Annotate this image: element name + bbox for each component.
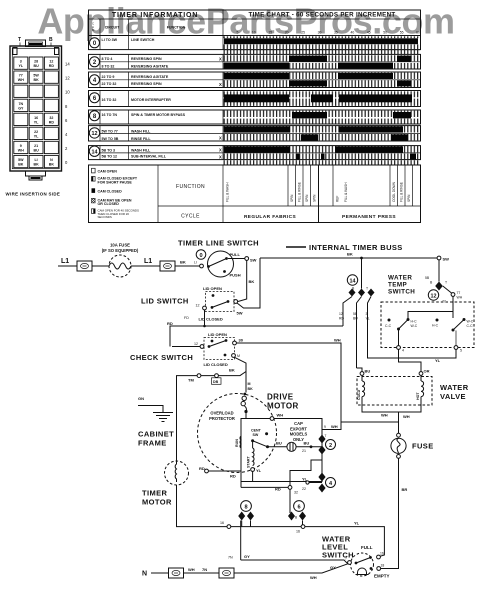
svg-text:60: 60 bbox=[416, 31, 420, 35]
svg-text:SWITCH: SWITCH bbox=[388, 289, 415, 296]
cam group 14 row bbox=[89, 146, 421, 160]
hot solenoid bbox=[420, 375, 422, 381]
svg-text:BK: BK bbox=[248, 387, 254, 391]
air dome bell bbox=[358, 568, 367, 575]
svg-text:BU: BU bbox=[276, 441, 282, 446]
svg-text:5B: 5B bbox=[353, 312, 358, 316]
SW terminal bbox=[245, 257, 249, 261]
svg-text:T: T bbox=[445, 281, 447, 285]
svg-text:FUNCTION: FUNCTION bbox=[167, 26, 186, 30]
svg-text:W-C: W-C bbox=[467, 320, 474, 324]
cam group 12 row bbox=[89, 126, 421, 141]
cam 14 circle bbox=[347, 275, 357, 285]
svg-text:L1: L1 bbox=[144, 258, 152, 265]
svg-text:FULL: FULL bbox=[361, 545, 373, 550]
legend / function / cycle block bbox=[89, 165, 421, 223]
svg-text:50: 50 bbox=[383, 31, 387, 35]
svg-text:M: M bbox=[248, 382, 251, 386]
svg-text:BK: BK bbox=[33, 163, 39, 167]
right temp contact set bbox=[436, 319, 439, 322]
YL wire to water level full bbox=[305, 527, 385, 557]
svg-text:C-C: C-C bbox=[467, 324, 474, 328]
svg-text:BK: BK bbox=[33, 78, 39, 82]
cam group 4 row bbox=[89, 72, 421, 88]
svg-text:T: T bbox=[366, 287, 368, 291]
water temp feed line bbox=[408, 312, 453, 319]
svg-text:FILL & WASH: FILL & WASH bbox=[344, 182, 348, 202]
svg-text:18: 18 bbox=[381, 564, 385, 568]
water level switch body bbox=[351, 553, 374, 576]
svg-text:RUN: RUN bbox=[235, 439, 239, 447]
svg-text:LID OPEN: LID OPEN bbox=[203, 286, 222, 291]
connector box CO (L1) bbox=[77, 261, 92, 271]
wire timer motor down to 16 run bbox=[177, 485, 304, 527]
svg-text:12: 12 bbox=[431, 293, 437, 299]
svg-text:LI TO 3W: LI TO 3W bbox=[102, 38, 118, 42]
svg-text:YL: YL bbox=[34, 134, 39, 138]
cam 8 contacts bbox=[238, 512, 245, 521]
svg-text:FUNCTION: FUNCTION bbox=[176, 184, 205, 190]
chart tick band in group gaps bbox=[224, 50, 421, 54]
svg-text:TIMER LINE SWITCH: TIMER LINE SWITCH bbox=[178, 239, 259, 248]
wire motor box bottom to node bbox=[240, 482, 242, 488]
svg-text:12: 12 bbox=[92, 131, 98, 137]
svg-text:28: 28 bbox=[34, 60, 38, 64]
svg-text:WATER: WATER bbox=[440, 383, 469, 392]
wire BK to timer line switch bbox=[175, 265, 200, 267]
svg-text:VALVE: VALVE bbox=[440, 392, 466, 401]
svg-text:CABINET: CABINET bbox=[138, 430, 174, 439]
svg-text:TM: TM bbox=[188, 378, 194, 383]
svg-text:7: 7 bbox=[345, 557, 347, 561]
wire 5B BU down to valve bbox=[357, 368, 363, 372]
svg-text:WASH FILL: WASH FILL bbox=[131, 148, 151, 152]
svg-text:PROTECTOR: PROTECTOR bbox=[209, 416, 235, 421]
lid switch bbox=[206, 292, 235, 312]
cold solenoid bbox=[361, 375, 363, 381]
svg-text:MOTOR INTERRUPTER: MOTOR INTERRUPTER bbox=[131, 98, 171, 102]
svg-text:X: X bbox=[219, 148, 222, 153]
svg-text:8 TO 4: 8 TO 4 bbox=[102, 57, 113, 61]
svg-text:LID OPEN: LID OPEN bbox=[208, 332, 227, 337]
svg-text:X: X bbox=[219, 57, 222, 62]
svg-text:32: 32 bbox=[49, 116, 53, 120]
svg-text:SW: SW bbox=[250, 258, 257, 263]
svg-text:5: 5 bbox=[460, 349, 462, 353]
svg-text:REF: REF bbox=[336, 196, 340, 202]
RD motor lead bbox=[209, 470, 242, 472]
svg-text:H-C: H-C bbox=[411, 320, 418, 324]
svg-text:FUSE: FUSE bbox=[412, 442, 434, 451]
svg-text:WASH FILL: WASH FILL bbox=[131, 130, 151, 134]
cam group 2 row bbox=[89, 54, 421, 69]
svg-text:X: X bbox=[219, 136, 222, 141]
svg-text:RD: RD bbox=[339, 317, 344, 321]
svg-text:21: 21 bbox=[34, 144, 38, 148]
svg-text:7N: 7N bbox=[228, 556, 233, 560]
cam 14 terminal drops bbox=[343, 297, 352, 327]
svg-text:BR: BR bbox=[402, 487, 408, 492]
time scale numbers bbox=[236, 31, 420, 35]
svg-text:WH: WH bbox=[381, 413, 388, 418]
svg-text:REVERSING AGITATE: REVERSING AGITATE bbox=[131, 75, 169, 79]
svg-text:PULL: PULL bbox=[230, 252, 241, 257]
svg-text:WATER: WATER bbox=[388, 275, 412, 282]
svg-text:LINE SWITCH: LINE SWITCH bbox=[131, 38, 155, 42]
svg-text:9: 9 bbox=[324, 425, 326, 429]
terminal 4 bbox=[397, 346, 401, 350]
connector bottom tabs bbox=[26, 171, 46, 176]
timer connector (wire insertion side) bbox=[10, 37, 62, 180]
wire check sw 30 to WH run bbox=[236, 343, 398, 422]
svg-text:FOR SHORT PAUSE: FOR SHORT PAUSE bbox=[98, 180, 133, 184]
wire SW down to cam 12 bbox=[438, 260, 440, 282]
cam 8 circle bbox=[241, 501, 252, 512]
left temp contact set bbox=[388, 319, 391, 322]
svg-text:12: 12 bbox=[65, 76, 70, 81]
svg-text:32: 32 bbox=[294, 491, 298, 495]
svg-text:YL: YL bbox=[34, 120, 39, 124]
svg-text:RD: RD bbox=[49, 64, 55, 68]
svg-text:CAP: CAP bbox=[294, 421, 303, 426]
table header row bbox=[89, 10, 421, 36]
svg-text:T: T bbox=[244, 518, 246, 522]
fuse bbox=[397, 433, 401, 437]
svg-text:10: 10 bbox=[65, 90, 70, 95]
svg-text:REVERSING SPIN: REVERSING SPIN bbox=[131, 57, 162, 61]
svg-text:WIRE INSERTION SIDE: WIRE INSERTION SIDE bbox=[6, 192, 61, 197]
svg-text:0: 0 bbox=[199, 253, 202, 259]
svg-text:RINSE FILL: RINSE FILL bbox=[131, 137, 151, 141]
svg-text:X: X bbox=[219, 82, 222, 87]
svg-text:SPIN: SPIN bbox=[312, 194, 316, 202]
legend: cam open bbox=[92, 168, 96, 173]
svg-text:REGULAR FABRICS: REGULAR FABRICS bbox=[244, 214, 297, 220]
drive motor housing bbox=[198, 394, 277, 473]
svg-text:FRAME: FRAME bbox=[138, 439, 167, 448]
svg-text:PUSH: PUSH bbox=[230, 273, 241, 278]
svg-text:M: M bbox=[237, 354, 240, 358]
overload protector contacts bbox=[243, 393, 246, 396]
wire lid switch output up to internal timer buss bbox=[237, 258, 260, 308]
svg-text:5W TO 77: 5W TO 77 bbox=[102, 130, 118, 134]
cam 6 contacts bbox=[288, 512, 295, 521]
svg-text:YL: YL bbox=[256, 468, 262, 473]
svg-text:HOT: HOT bbox=[416, 392, 420, 400]
svg-text:WH: WH bbox=[331, 424, 338, 429]
svg-text:YL: YL bbox=[435, 358, 441, 363]
svg-text:16 TO 7N: 16 TO 7N bbox=[102, 113, 118, 117]
svg-text:7N: 7N bbox=[202, 567, 207, 572]
svg-text:YL: YL bbox=[19, 64, 24, 68]
svg-text:T: T bbox=[18, 37, 21, 43]
svg-text:EMPTY: EMPTY bbox=[374, 574, 390, 579]
cam group 6 row bbox=[89, 91, 421, 107]
wire terminal 4 down to valve OR bbox=[399, 349, 422, 371]
svg-text:N: N bbox=[50, 158, 53, 162]
svg-text:25: 25 bbox=[301, 31, 305, 35]
valve common WH wires bbox=[362, 401, 421, 412]
svg-text:55: 55 bbox=[400, 31, 404, 35]
7N GY run from cam 8 to water level 7 bbox=[241, 560, 348, 564]
cam 4 contacts bbox=[318, 473, 325, 482]
legend: cam closed except short pause bbox=[92, 177, 96, 182]
svg-text:YL: YL bbox=[302, 477, 308, 482]
svg-text:RD: RD bbox=[199, 466, 205, 471]
svg-text:YL: YL bbox=[354, 521, 360, 526]
timer motor bbox=[165, 461, 189, 485]
svg-text:BK: BK bbox=[18, 163, 24, 167]
rotated function labels bbox=[226, 181, 412, 202]
svg-text:MOTOR: MOTOR bbox=[267, 402, 299, 411]
svg-text:22: 22 bbox=[302, 487, 306, 491]
svg-text:DRIVE: DRIVE bbox=[267, 393, 294, 402]
run winding bbox=[240, 436, 241, 448]
legend: cam closed bbox=[92, 188, 96, 193]
svg-text:GY: GY bbox=[244, 554, 250, 559]
svg-text:3: 3 bbox=[20, 60, 22, 64]
svg-text:WH: WH bbox=[403, 414, 410, 419]
drive motor box bbox=[241, 419, 322, 482]
svg-text:20: 20 bbox=[285, 31, 289, 35]
svg-text:7N: 7N bbox=[18, 102, 23, 106]
svg-text:CHECK SWITCH: CHECK SWITCH bbox=[130, 353, 193, 362]
svg-text:GY: GY bbox=[18, 106, 24, 110]
77 WH terminal bbox=[443, 286, 452, 293]
wire BR from fuse to water level empty bbox=[381, 458, 399, 568]
cam group 8 row bbox=[89, 110, 421, 124]
connector shell bbox=[10, 46, 62, 171]
svg-text:C-C: C-C bbox=[385, 324, 392, 328]
svg-text:14: 14 bbox=[92, 149, 98, 155]
function sub columns bbox=[287, 165, 289, 206]
svg-text:START: START bbox=[247, 455, 251, 468]
junction cam14 on buss bbox=[360, 257, 363, 260]
svg-text:77: 77 bbox=[457, 291, 461, 295]
svg-text:5W: 5W bbox=[33, 74, 39, 78]
svg-text:SUB-INTERVAL FILL: SUB-INTERVAL FILL bbox=[131, 155, 167, 159]
svg-text:8 TO 32: 8 TO 32 bbox=[102, 64, 115, 68]
svg-text:BU: BU bbox=[33, 64, 39, 68]
svg-text:FILL & RINSE: FILL & RINSE bbox=[297, 182, 301, 202]
wire BK from SW down to lid switch bbox=[238, 260, 247, 301]
svg-text:H-C: H-C bbox=[432, 324, 439, 328]
RD 32 node bbox=[288, 486, 292, 490]
svg-text:OR: OR bbox=[424, 369, 430, 374]
svg-text:2: 2 bbox=[329, 443, 332, 449]
svg-text:30: 30 bbox=[239, 338, 244, 343]
wire cam 8 down to 7N run bbox=[240, 521, 242, 561]
svg-text:TEMP: TEMP bbox=[388, 282, 407, 289]
wire to inline fuse bbox=[92, 265, 109, 267]
svg-text:LID CLOSED: LID CLOSED bbox=[204, 362, 228, 367]
svg-text:6: 6 bbox=[297, 504, 300, 510]
svg-text:(IF SO EQUIPPED): (IF SO EQUIPPED) bbox=[102, 248, 139, 253]
svg-text:T: T bbox=[325, 434, 327, 438]
svg-text:BU: BU bbox=[304, 441, 310, 446]
svg-text:12: 12 bbox=[339, 312, 343, 316]
svg-text:OVERLOAD: OVERLOAD bbox=[210, 411, 233, 416]
svg-text:PERMANENT PRESS: PERMANENT PRESS bbox=[342, 214, 396, 220]
svg-text:WH: WH bbox=[188, 567, 195, 572]
10A fuse (if so equipped) bbox=[109, 255, 131, 277]
svg-text:14: 14 bbox=[65, 62, 70, 67]
svg-text:REVERSING AGITATE: REVERSING AGITATE bbox=[131, 64, 169, 68]
cam 6 circle bbox=[294, 501, 305, 512]
svg-text:CYCLE: CYCLE bbox=[181, 214, 200, 220]
wire fuse to L1 box bbox=[131, 265, 160, 267]
legend: cam may be open or closed bbox=[92, 198, 96, 203]
svg-text:SECONDS: SECONDS bbox=[98, 215, 112, 219]
svg-text:DB: DB bbox=[213, 380, 219, 384]
svg-text:8: 8 bbox=[244, 504, 247, 510]
svg-text:16: 16 bbox=[380, 552, 384, 556]
svg-text:77: 77 bbox=[19, 74, 23, 78]
timer information table bbox=[89, 10, 421, 36]
svg-text:WH: WH bbox=[18, 78, 24, 82]
svg-text:TIMER: TIMER bbox=[142, 489, 168, 498]
svg-text:BK: BK bbox=[49, 163, 55, 167]
RD wire run (12) bbox=[170, 326, 343, 347]
svg-text:16 TO 32: 16 TO 32 bbox=[102, 98, 117, 102]
svg-text:5B: 5B bbox=[425, 276, 430, 280]
svg-text:SPIN & TIMER MOTOR BYPASS: SPIN & TIMER MOTOR BYPASS bbox=[131, 113, 186, 117]
svg-text:EXPORT: EXPORT bbox=[290, 426, 307, 431]
wire check sw M down to drive motor bbox=[235, 357, 247, 392]
svg-text:RD: RD bbox=[49, 120, 55, 124]
svg-text:TIMER INFORMATION: TIMER INFORMATION bbox=[112, 12, 198, 19]
svg-text:INTERNAL TIMER BUSS: INTERNAL TIMER BUSS bbox=[309, 243, 403, 252]
svg-text:SW: SW bbox=[253, 433, 259, 437]
svg-text:TIME CHART - 60 SECONDS PER IN: TIME CHART - 60 SECONDS PER INCREMENT bbox=[249, 12, 396, 19]
svg-text:9: 9 bbox=[20, 144, 22, 148]
svg-text:WH: WH bbox=[18, 149, 24, 153]
svg-text:FILL & RINSE: FILL & RINSE bbox=[400, 182, 404, 202]
svg-text:SPIN: SPIN bbox=[290, 194, 294, 202]
svg-text:X: X bbox=[219, 155, 222, 160]
timer line switch body bbox=[208, 251, 234, 277]
legend: cam open 40s then closed 20s bbox=[92, 209, 96, 214]
connector corner tabs bbox=[13, 48, 17, 55]
svg-text:MODELS: MODELS bbox=[290, 432, 308, 437]
svg-text:LID SWITCH: LID SWITCH bbox=[141, 297, 189, 306]
svg-text:30: 30 bbox=[318, 31, 322, 35]
svg-text:LI: LI bbox=[34, 158, 37, 162]
svg-text:5B TO 3: 5B TO 3 bbox=[102, 148, 116, 152]
svg-text:22 TO 32: 22 TO 32 bbox=[102, 82, 117, 86]
svg-text:LI: LI bbox=[194, 261, 197, 265]
start winding bbox=[252, 441, 254, 448]
svg-text:GN: GN bbox=[138, 396, 144, 401]
svg-text:3: 3 bbox=[366, 312, 368, 316]
water valve box bbox=[357, 377, 432, 406]
check switch bbox=[204, 338, 235, 360]
cam group 0 row bbox=[89, 36, 421, 50]
chart X marks bbox=[219, 57, 222, 160]
svg-text:12: 12 bbox=[194, 342, 198, 346]
svg-text:BU: BU bbox=[365, 369, 371, 374]
connector top notch bbox=[26, 40, 46, 47]
svg-text:5W: 5W bbox=[18, 158, 24, 162]
SW node on buss bbox=[437, 256, 441, 260]
svg-text:16: 16 bbox=[34, 116, 38, 120]
svg-text:WH: WH bbox=[334, 338, 341, 343]
cam 2 to cam 6 step wire bbox=[290, 455, 322, 488]
svg-text:21: 21 bbox=[302, 449, 306, 453]
svg-text:4: 4 bbox=[402, 349, 404, 353]
svg-text:14: 14 bbox=[350, 278, 356, 284]
svg-text:22 TO 9: 22 TO 9 bbox=[102, 75, 115, 79]
svg-text:SWITCH: SWITCH bbox=[322, 551, 354, 560]
9 WH wire to cam 2 bbox=[322, 422, 341, 435]
svg-text:45: 45 bbox=[367, 31, 371, 35]
svg-text:5B TO 12: 5B TO 12 bbox=[102, 155, 118, 159]
svg-text:COOL DOWN: COOL DOWN bbox=[392, 181, 396, 202]
svg-text:N: N bbox=[142, 571, 147, 578]
connector pin grid bbox=[14, 57, 71, 168]
svg-text:COLD: COLD bbox=[357, 389, 361, 400]
svg-text:W-C: W-C bbox=[411, 324, 418, 328]
svg-text:FD: FD bbox=[184, 316, 189, 320]
svg-text:5: 5 bbox=[236, 31, 238, 35]
svg-text:REVERSING SPIN: REVERSING SPIN bbox=[131, 82, 162, 86]
wire L1 to connector box bbox=[58, 265, 77, 267]
svg-text:16: 16 bbox=[296, 530, 300, 534]
water temp switch box bbox=[381, 302, 474, 348]
svg-text:5W: 5W bbox=[237, 311, 243, 316]
svg-text:MOTOR: MOTOR bbox=[142, 498, 172, 507]
svg-text:YL: YL bbox=[366, 317, 370, 321]
svg-text:22: 22 bbox=[34, 130, 38, 134]
connector box CO (second) bbox=[160, 261, 175, 271]
svg-text:12: 12 bbox=[196, 304, 200, 308]
svg-text:BK: BK bbox=[249, 279, 255, 284]
svg-text:L1: L1 bbox=[61, 258, 69, 265]
svg-text:B: B bbox=[295, 516, 297, 520]
svg-text:WH: WH bbox=[310, 575, 317, 580]
svg-text:CAM CLOSED: CAM CLOSED bbox=[98, 189, 123, 193]
svg-text:16: 16 bbox=[220, 521, 224, 525]
svg-text:SW: SW bbox=[443, 257, 450, 262]
YL 22 stub to cam 4 bbox=[309, 482, 322, 484]
svg-text:BK: BK bbox=[180, 260, 186, 265]
svg-text:FILL & WASH: FILL & WASH bbox=[226, 182, 230, 202]
svg-text:35: 35 bbox=[334, 31, 338, 35]
svg-text:15: 15 bbox=[268, 31, 272, 35]
svg-text:BU: BU bbox=[33, 149, 39, 153]
svg-text:WH: WH bbox=[277, 413, 284, 418]
svg-text:OR CLOSED: OR CLOSED bbox=[98, 202, 120, 206]
svg-text:SPIN: SPIN bbox=[305, 194, 309, 202]
svg-text:CENT: CENT bbox=[251, 429, 262, 433]
cam 0 circle bbox=[196, 250, 206, 260]
svg-text:CAM OPEN: CAM OPEN bbox=[98, 169, 118, 173]
svg-text:BK: BK bbox=[347, 252, 353, 257]
cam 2 contacts bbox=[318, 435, 325, 444]
svg-text:12: 12 bbox=[49, 60, 53, 64]
svg-text:RD: RD bbox=[230, 474, 236, 479]
svg-text:10: 10 bbox=[252, 31, 256, 35]
internal timer buss bbox=[286, 246, 306, 248]
wire lid sw 12 down to RD run bbox=[204, 310, 206, 326]
svg-text:40: 40 bbox=[351, 31, 355, 35]
svg-text:WH: WH bbox=[457, 296, 463, 300]
svg-text:RD: RD bbox=[167, 321, 173, 326]
svg-text:CIRCUIT: CIRCUIT bbox=[105, 26, 120, 30]
svg-text:BU: BU bbox=[353, 317, 358, 321]
svg-text:B: B bbox=[49, 37, 53, 43]
cam 12 circle bbox=[428, 290, 438, 300]
